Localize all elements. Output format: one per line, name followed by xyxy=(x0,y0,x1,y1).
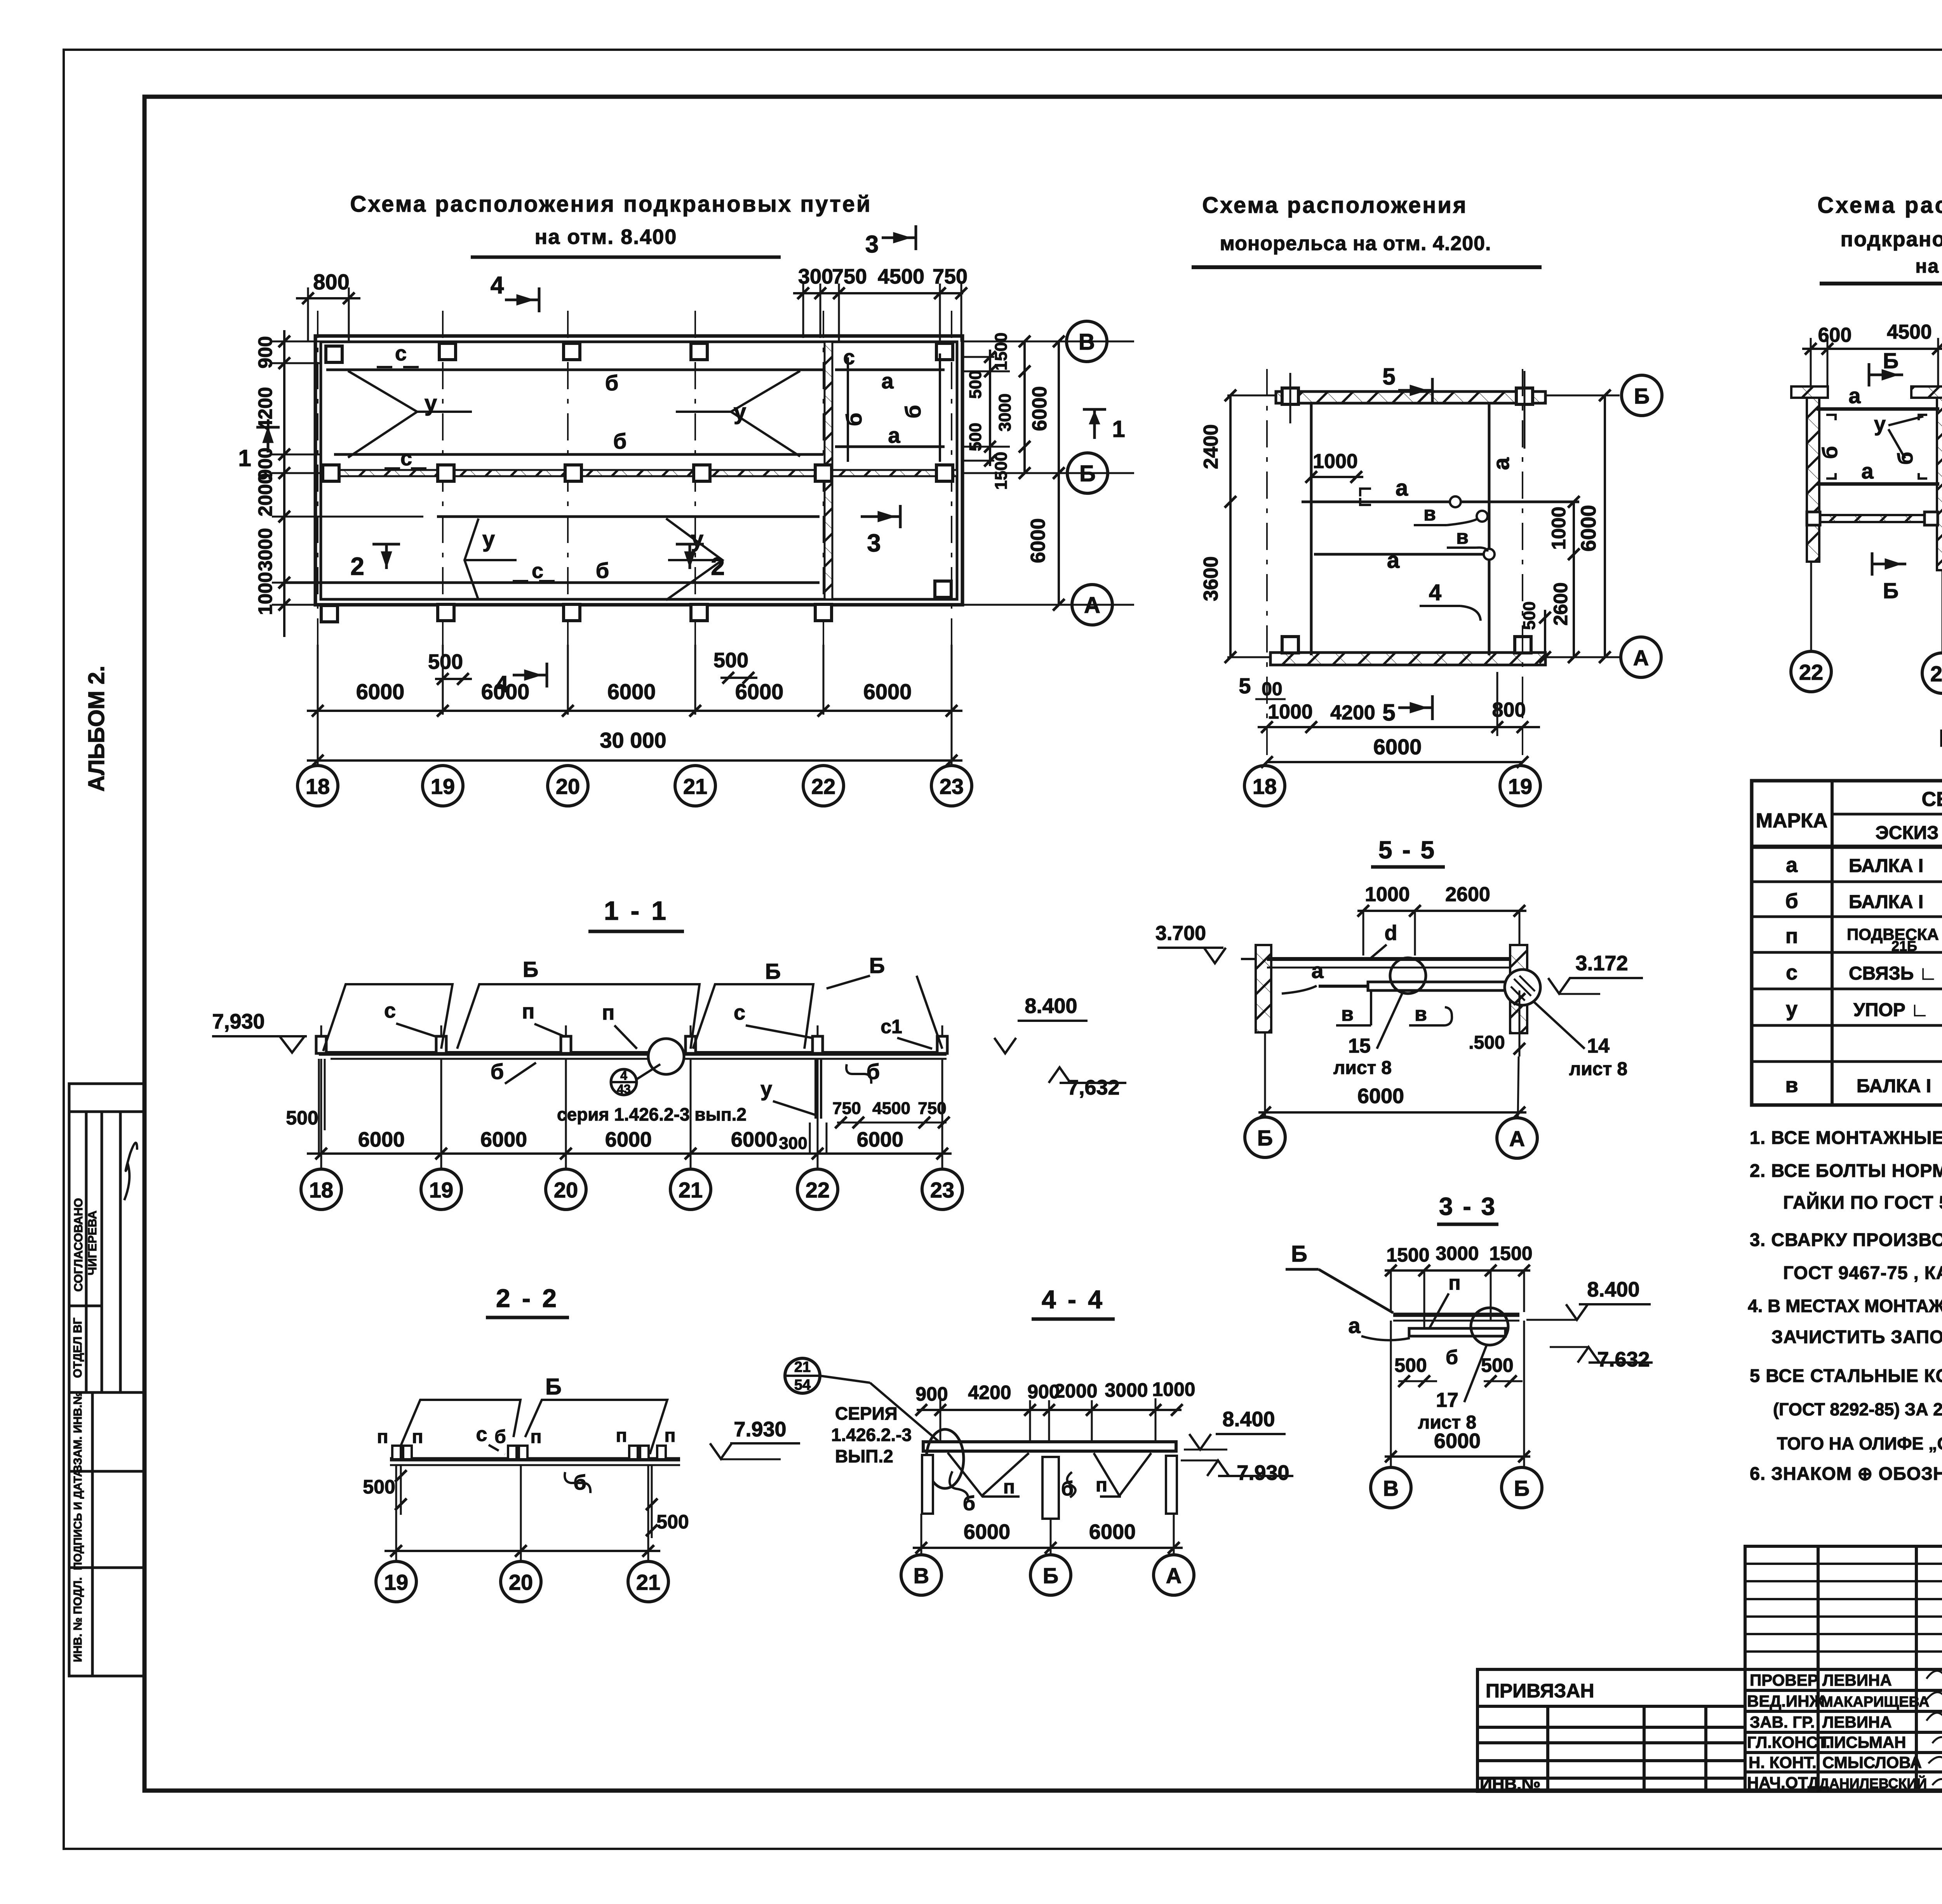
svg-text:17: 17 xyxy=(1436,1389,1458,1411)
svg-text:лист 8: лист 8 xyxy=(1569,1059,1627,1079)
svg-text:18: 18 xyxy=(1253,774,1277,799)
svg-text:2000: 2000 xyxy=(1054,1380,1097,1402)
svg-text:ЛЕВИНА: ЛЕВИНА xyxy=(1822,1713,1892,1731)
svg-text:Б: Б xyxy=(1291,1241,1307,1267)
svg-text:22: 22 xyxy=(1799,660,1823,684)
svg-text:22: 22 xyxy=(806,1178,830,1202)
svg-text:21: 21 xyxy=(636,1570,660,1594)
svg-text:3000: 3000 xyxy=(1436,1243,1479,1264)
svg-text:18: 18 xyxy=(306,774,330,799)
svg-text:14: 14 xyxy=(1587,1035,1610,1057)
svg-text:БАЛКА I: БАЛКА I xyxy=(1849,892,1923,912)
svg-text:1000: 1000 xyxy=(1365,883,1410,906)
svg-text:3000: 3000 xyxy=(254,528,276,571)
svg-text:6000: 6000 xyxy=(1357,1084,1404,1108)
svg-text:2600: 2600 xyxy=(1445,883,1490,906)
svg-text:3. СВАРКУ ПРОИЗВОДИТЬ ЭЛЕКТР: 3. СВАРКУ ПРОИЗВОДИТЬ ЭЛЕКТРОДАМИ ТИПА Э… xyxy=(1750,1229,1942,1250)
svg-text:п: п xyxy=(665,1425,676,1446)
svg-text:с: с xyxy=(532,559,543,583)
svg-text:21: 21 xyxy=(794,1359,811,1375)
svg-text:2: 2 xyxy=(350,552,364,580)
svg-text:Б: Б xyxy=(1883,348,1898,373)
svg-text:30 000: 30 000 xyxy=(600,728,666,752)
svg-text:СЕЧЕНИЕ: СЕЧЕНИЕ xyxy=(1921,788,1942,811)
svg-text:Б: Б xyxy=(1634,384,1650,408)
svg-text:.500: .500 xyxy=(1469,1032,1505,1053)
svg-text:ТОГО НА ОЛИФЕ „ОКСОЛЬ". НА ЕЗ: ТОГО НА ОЛИФЕ „ОКСОЛЬ". НА ЕЗДОВУЮ ПОВЕР… xyxy=(1777,1434,1942,1453)
svg-text:Схема расположения: Схема расположения xyxy=(1202,193,1468,218)
svg-text:Б: Б xyxy=(545,1374,562,1399)
svg-text:20: 20 xyxy=(554,1178,578,1202)
svg-text:6000: 6000 xyxy=(1089,1520,1136,1544)
svg-text:500: 500 xyxy=(656,1511,689,1533)
svg-text:УПОР ∟: УПОР ∟ xyxy=(1853,1000,1929,1020)
svg-text:п: п xyxy=(1003,1476,1015,1498)
svg-text:ВЕД.ИНЖ.: ВЕД.ИНЖ. xyxy=(1747,1692,1829,1710)
svg-text:в: в xyxy=(1456,526,1469,548)
svg-text:Схема расположения подкранов: Схема расположения подкрановых путей xyxy=(350,191,872,217)
svg-text:А: А xyxy=(1509,1126,1525,1151)
svg-text:у: у xyxy=(760,1077,772,1101)
svg-text:ЧИГЕРЕВА: ЧИГЕРЕВА xyxy=(85,1211,99,1276)
svg-text:7.930: 7.930 xyxy=(734,1418,786,1441)
svg-text:3600: 3600 xyxy=(1200,556,1222,601)
svg-text:500: 500 xyxy=(1481,1354,1513,1376)
svg-text:а: а xyxy=(1848,383,1861,408)
svg-text:4 - 4: 4 - 4 xyxy=(1042,1285,1105,1314)
svg-text:1500: 1500 xyxy=(1489,1243,1532,1264)
svg-text:б: б xyxy=(901,405,925,419)
svg-text:5: 5 xyxy=(1239,674,1251,698)
svg-text:3000: 3000 xyxy=(1105,1379,1148,1401)
svg-text:21Б: 21Б xyxy=(1892,938,1917,954)
svg-text:б: б xyxy=(1446,1346,1458,1369)
svg-text:лист 8: лист 8 xyxy=(1333,1058,1392,1078)
svg-text:Схема расположения: Схема расположения xyxy=(1817,193,1942,218)
svg-text:19: 19 xyxy=(1508,774,1532,799)
svg-text:у: у xyxy=(425,391,437,416)
svg-text:d: d xyxy=(1385,921,1397,945)
svg-text:4500: 4500 xyxy=(878,265,924,288)
svg-text:8.400: 8.400 xyxy=(1222,1408,1275,1431)
svg-text:1000: 1000 xyxy=(254,572,276,615)
svg-text:1000: 1000 xyxy=(1548,506,1570,550)
svg-text:ВЫП.2: ВЫП.2 xyxy=(835,1446,893,1466)
svg-text:п: п xyxy=(1096,1474,1107,1496)
svg-text:6000: 6000 xyxy=(356,679,405,704)
svg-text:00: 00 xyxy=(1262,679,1282,700)
svg-text:15: 15 xyxy=(1348,1035,1371,1057)
svg-text:ГАЙКИ ПО ГОСТ 5915-70*.: ГАЙКИ ПО ГОСТ 5915-70*. xyxy=(1783,1192,1942,1213)
svg-text:4: 4 xyxy=(491,272,504,299)
svg-text:с: с xyxy=(384,999,396,1022)
svg-text:СОГЛАСОВАНО: СОГЛАСОВАНО xyxy=(71,1198,85,1291)
svg-text:а: а xyxy=(1311,958,1324,983)
svg-text:б: б xyxy=(842,413,866,426)
svg-text:Н. КОНТ.: Н. КОНТ. xyxy=(1749,1753,1817,1772)
svg-text:Б: Б xyxy=(765,959,781,983)
svg-text:4200: 4200 xyxy=(1330,701,1375,724)
svg-text:21: 21 xyxy=(683,774,707,799)
svg-text:6000: 6000 xyxy=(964,1520,1010,1544)
svg-text:6000: 6000 xyxy=(863,679,912,704)
svg-text:1000: 1000 xyxy=(1313,450,1358,473)
svg-text:ПРИВЯЗАН: ПРИВЯЗАН xyxy=(1486,1680,1594,1702)
svg-text:900: 900 xyxy=(254,336,276,368)
svg-text:в: в xyxy=(1415,1003,1427,1025)
svg-text:6000: 6000 xyxy=(358,1128,405,1151)
svg-text:с: с xyxy=(400,447,412,470)
svg-text:1000: 1000 xyxy=(1152,1378,1195,1400)
svg-text:4: 4 xyxy=(620,1069,627,1083)
svg-text:Б: Б xyxy=(1883,578,1898,603)
svg-text:Б: Б xyxy=(1514,1476,1530,1500)
svg-text:900: 900 xyxy=(915,1383,948,1405)
svg-text:п: п xyxy=(412,1427,423,1447)
svg-text:23: 23 xyxy=(940,774,964,799)
svg-text:4200: 4200 xyxy=(254,387,276,430)
svg-text:18: 18 xyxy=(309,1178,333,1202)
svg-text:23: 23 xyxy=(930,1178,954,1202)
svg-text:п: п xyxy=(522,1000,535,1023)
svg-text:СВЯЗЬ ∟: СВЯЗЬ ∟ xyxy=(1849,963,1937,984)
svg-text:Ведомость элементов: Ведомость элементов xyxy=(1939,725,1942,752)
svg-text:500: 500 xyxy=(428,650,463,674)
svg-text:с1: с1 xyxy=(881,1016,902,1037)
svg-text:2: 2 xyxy=(711,552,725,580)
svg-text:а: а xyxy=(881,369,894,393)
svg-text:500: 500 xyxy=(1520,601,1539,630)
svg-text:монорельса на отм. 4.200.: монорельса на отм. 4.200. xyxy=(1220,232,1491,255)
svg-text:ИНВ.№: ИНВ.№ xyxy=(1480,1775,1540,1794)
svg-text:у: у xyxy=(691,527,703,552)
svg-text:1. ВСЕ МОНТАЖНЫЕ СОЕДИНЕНИЯ: 1. ВСЕ МОНТАЖНЫЕ СОЕДИНЕНИЯ НА БОЛТАХ И … xyxy=(1750,1127,1942,1148)
svg-text:В: В xyxy=(914,1563,929,1588)
svg-text:23: 23 xyxy=(1930,661,1942,686)
svg-text:3: 3 xyxy=(865,231,879,258)
svg-text:1500: 1500 xyxy=(992,452,1011,490)
svg-text:в: в xyxy=(1341,1003,1354,1025)
svg-text:4200: 4200 xyxy=(968,1382,1011,1403)
svg-text:6. ЗНАКОМ ⊕ ОБОЗНАЧЕНЫ МЕСТА: 6. ЗНАКОМ ⊕ ОБОЗНАЧЕНЫ МЕСТА КРЕПЛЕНИЯ Е… xyxy=(1750,1463,1942,1484)
svg-text:а: а xyxy=(1348,1313,1361,1338)
svg-text:ДАНИЛЕВСКИЙ: ДАНИЛЕВСКИЙ xyxy=(1819,1775,1927,1791)
svg-text:б: б xyxy=(494,1427,506,1447)
svg-text:500: 500 xyxy=(966,370,985,399)
svg-text:500: 500 xyxy=(363,1476,395,1498)
svg-text:6000: 6000 xyxy=(607,679,656,704)
svg-text:Б: Б xyxy=(1079,461,1096,486)
svg-text:п: п xyxy=(377,1427,388,1447)
svg-text:с: с xyxy=(476,1423,487,1446)
svg-text:2. ВСЕ БОЛТЫ НОРМАЛЬНОЙ ТОЧ: 2. ВСЕ БОЛТЫ НОРМАЛЬНОЙ ТОЧНОСТИ М16 ГОС… xyxy=(1750,1160,1942,1181)
svg-text:800: 800 xyxy=(313,270,349,294)
svg-text:ПИСЬМАН: ПИСЬМАН xyxy=(1822,1733,1906,1751)
svg-text:ЗАВ. ГР.: ЗАВ. ГР. xyxy=(1750,1713,1815,1731)
svg-text:22: 22 xyxy=(811,774,835,799)
svg-text:3.700: 3.700 xyxy=(1155,922,1206,945)
svg-text:с: с xyxy=(1786,961,1798,984)
svg-text:п: п xyxy=(1448,1272,1460,1294)
svg-text:8.400: 8.400 xyxy=(1025,994,1077,1018)
svg-text:6000: 6000 xyxy=(1577,505,1600,552)
svg-text:а: а xyxy=(888,423,900,447)
svg-text:6000: 6000 xyxy=(480,1128,527,1151)
svg-text:6000: 6000 xyxy=(1434,1429,1481,1453)
svg-text:5: 5 xyxy=(1382,700,1395,726)
svg-text:6000: 6000 xyxy=(605,1128,652,1151)
svg-text:Б: Б xyxy=(1043,1563,1058,1588)
svg-text:1: 1 xyxy=(1112,416,1125,442)
svg-text:подкранового пути: подкранового пути xyxy=(1841,228,1942,251)
svg-text:а: а xyxy=(1861,459,1874,483)
svg-text:7,930: 7,930 xyxy=(212,1010,265,1033)
svg-text:б: б xyxy=(1818,446,1842,459)
svg-text:6000: 6000 xyxy=(857,1128,903,1151)
svg-text:с: с xyxy=(395,342,407,365)
svg-text:б: б xyxy=(596,558,609,583)
svg-text:500: 500 xyxy=(713,649,748,672)
svg-text:ПРОВЕР.: ПРОВЕР. xyxy=(1750,1671,1820,1689)
svg-text:6000: 6000 xyxy=(481,679,530,704)
svg-text:Б: Б xyxy=(1257,1126,1273,1150)
svg-text:б: б xyxy=(605,371,619,395)
svg-text:МАКАРИЩЕВА: МАКАРИЩЕВА xyxy=(1821,1694,1929,1710)
svg-text:Б: Б xyxy=(523,957,538,982)
svg-text:43: 43 xyxy=(617,1082,631,1096)
svg-text:БАЛКА I: БАЛКА I xyxy=(1849,856,1923,876)
svg-text:(ГОСТ 8292-85) ЗА 2 РАЗА ПО: (ГОСТ 8292-85) ЗА 2 РАЗА ПО ГРУНТОВКЕ ИЗ… xyxy=(1773,1399,1942,1419)
svg-text:А: А xyxy=(1084,593,1100,618)
svg-text:5: 5 xyxy=(1382,364,1395,390)
svg-text:6000: 6000 xyxy=(1373,734,1422,759)
svg-text:500: 500 xyxy=(286,1107,318,1129)
svg-text:1: 1 xyxy=(238,445,251,471)
svg-text:ОТДЕЛ ВГ: ОТДЕЛ ВГ xyxy=(71,1317,84,1378)
svg-text:1.426.2.-3: 1.426.2.-3 xyxy=(831,1425,912,1445)
svg-text:у: у xyxy=(482,527,495,552)
svg-text:а: а xyxy=(1786,853,1798,877)
svg-text:п: п xyxy=(602,1001,615,1024)
svg-text:с: с xyxy=(734,1001,745,1024)
svg-text:19: 19 xyxy=(384,1570,408,1594)
svg-text:МАРКА: МАРКА xyxy=(1756,809,1828,832)
svg-text:3 - 3: 3 - 3 xyxy=(1439,1192,1497,1220)
svg-text:ЗАЧИСТИТЬ ЗАПОДЛИЦО С ОСТАЛ: ЗАЧИСТИТЬ ЗАПОДЛИЦО С ОСТАЛЬНЫМ МЕТАЛЛОМ… xyxy=(1771,1326,1942,1347)
svg-text:750: 750 xyxy=(832,1099,861,1118)
svg-text:б: б xyxy=(1894,452,1917,465)
svg-text:7.632: 7.632 xyxy=(1597,1348,1650,1371)
svg-text:в: в xyxy=(1785,1074,1798,1097)
svg-text:у: у xyxy=(1874,412,1886,436)
svg-text:6000: 6000 xyxy=(735,679,784,704)
svg-text:6000: 6000 xyxy=(731,1128,778,1151)
svg-text:на отм. 4.200: на отм. 4.200 xyxy=(1915,255,1942,277)
svg-text:п: п xyxy=(531,1427,542,1447)
svg-text:2400: 2400 xyxy=(1200,424,1222,469)
svg-text:19: 19 xyxy=(431,774,455,799)
svg-text:ГОСТ 9467-75 , КАТЕТ ШВА hш: ГОСТ 9467-75 , КАТЕТ ШВА hш = 6 ММ. xyxy=(1783,1262,1942,1283)
svg-text:5 ВСЕ СТАЛЬНЫЕ КОНСТРУКЦИИ: 5 ВСЕ СТАЛЬНЫЕ КОНСТРУКЦИИ ОКРАСИТЬ МАС … xyxy=(1750,1365,1942,1386)
svg-text:7,632: 7,632 xyxy=(1067,1076,1119,1099)
svg-text:б: б xyxy=(613,429,627,453)
svg-text:ГЛ.КОНСТ.: ГЛ.КОНСТ. xyxy=(1747,1733,1830,1751)
svg-text:750: 750 xyxy=(832,265,867,288)
svg-text:3: 3 xyxy=(867,529,881,557)
svg-text:1500: 1500 xyxy=(1386,1244,1429,1266)
svg-text:21: 21 xyxy=(679,1178,703,1202)
svg-text:п: п xyxy=(616,1425,627,1446)
svg-text:8.400: 8.400 xyxy=(1587,1278,1639,1301)
svg-text:ИНВ. № ПОДЛ.: ИНВ. № ПОДЛ. xyxy=(71,1577,84,1662)
svg-text:В: В xyxy=(1079,329,1095,355)
svg-text:ЭСКИЗ: ЭСКИЗ xyxy=(1876,823,1939,843)
svg-text:1 - 1: 1 - 1 xyxy=(604,896,668,926)
svg-text:500: 500 xyxy=(966,423,985,451)
svg-text:4. В МЕСТАХ МОНТАЖНЫХ СТЫКОВ: 4. В МЕСТАХ МОНТАЖНЫХ СТЫКОВ МОНОРЕЛЬСА … xyxy=(1748,1296,1942,1316)
svg-text:у: у xyxy=(734,399,746,425)
svg-text:а: а xyxy=(1387,548,1400,573)
svg-text:ВЗАМ. ИНВ.№: ВЗАМ. ИНВ.№ xyxy=(71,1392,84,1473)
svg-text:п: п xyxy=(1785,924,1798,948)
svg-text:4500: 4500 xyxy=(872,1099,910,1118)
svg-text:ЛЕВИНА: ЛЕВИНА xyxy=(1822,1671,1892,1689)
svg-text:4: 4 xyxy=(1429,580,1441,605)
svg-text:ПОДПИСЬ И ДАТА: ПОДПИСЬ И ДАТА xyxy=(72,1469,84,1570)
svg-text:3.172: 3.172 xyxy=(1575,952,1628,975)
svg-text:54: 54 xyxy=(794,1377,811,1393)
svg-text:а: а xyxy=(1489,457,1514,470)
svg-text:5 - 5: 5 - 5 xyxy=(1378,836,1436,864)
svg-text:6000: 6000 xyxy=(1027,518,1049,563)
svg-text:7.930: 7.930 xyxy=(1237,1461,1289,1485)
svg-text:серия 1.426.2-3 вып.2: серия 1.426.2-3 вып.2 xyxy=(557,1104,747,1124)
svg-text:А: А xyxy=(1166,1563,1182,1588)
svg-text:б: б xyxy=(491,1059,504,1084)
svg-text:750: 750 xyxy=(933,265,968,288)
svg-text:на отм. 8.400: на отм. 8.400 xyxy=(535,225,677,249)
svg-text:б: б xyxy=(867,1059,880,1084)
svg-text:у: у xyxy=(1786,997,1798,1021)
svg-text:б: б xyxy=(1785,889,1798,913)
svg-text:20: 20 xyxy=(509,1570,533,1594)
svg-text:2 - 2: 2 - 2 xyxy=(496,1284,559,1312)
svg-text:4500: 4500 xyxy=(1887,321,1932,343)
svg-text:6000: 6000 xyxy=(1028,386,1051,431)
svg-text:600: 600 xyxy=(1818,324,1852,346)
svg-text:500: 500 xyxy=(1394,1354,1427,1376)
svg-text:В: В xyxy=(1383,1476,1399,1500)
svg-text:3000: 3000 xyxy=(995,393,1015,432)
svg-text:НАЧ.ОТД.: НАЧ.ОТД. xyxy=(1747,1773,1824,1792)
svg-text:СЕРИЯ: СЕРИЯ xyxy=(835,1403,898,1424)
svg-text:19: 19 xyxy=(429,1178,453,1202)
svg-text:2000: 2000 xyxy=(254,473,276,516)
svg-text:1000: 1000 xyxy=(1268,701,1313,723)
svg-text:1500: 1500 xyxy=(992,332,1011,371)
svg-text:а: а xyxy=(1396,475,1408,501)
svg-text:БАЛКА I: БАЛКА I xyxy=(1857,1076,1931,1096)
svg-text:в: в xyxy=(1423,503,1436,525)
svg-text:Б: Б xyxy=(869,953,885,978)
svg-text:А: А xyxy=(1633,646,1649,670)
svg-text:б: б xyxy=(963,1492,975,1515)
svg-text:АЛЬБОМ 2.: АЛЬБОМ 2. xyxy=(84,666,109,792)
svg-text:300: 300 xyxy=(779,1134,807,1153)
svg-text:СМЫСЛОВА: СМЫСЛОВА xyxy=(1822,1753,1922,1772)
svg-text:20: 20 xyxy=(556,774,580,799)
svg-text:2600: 2600 xyxy=(1550,582,1571,625)
